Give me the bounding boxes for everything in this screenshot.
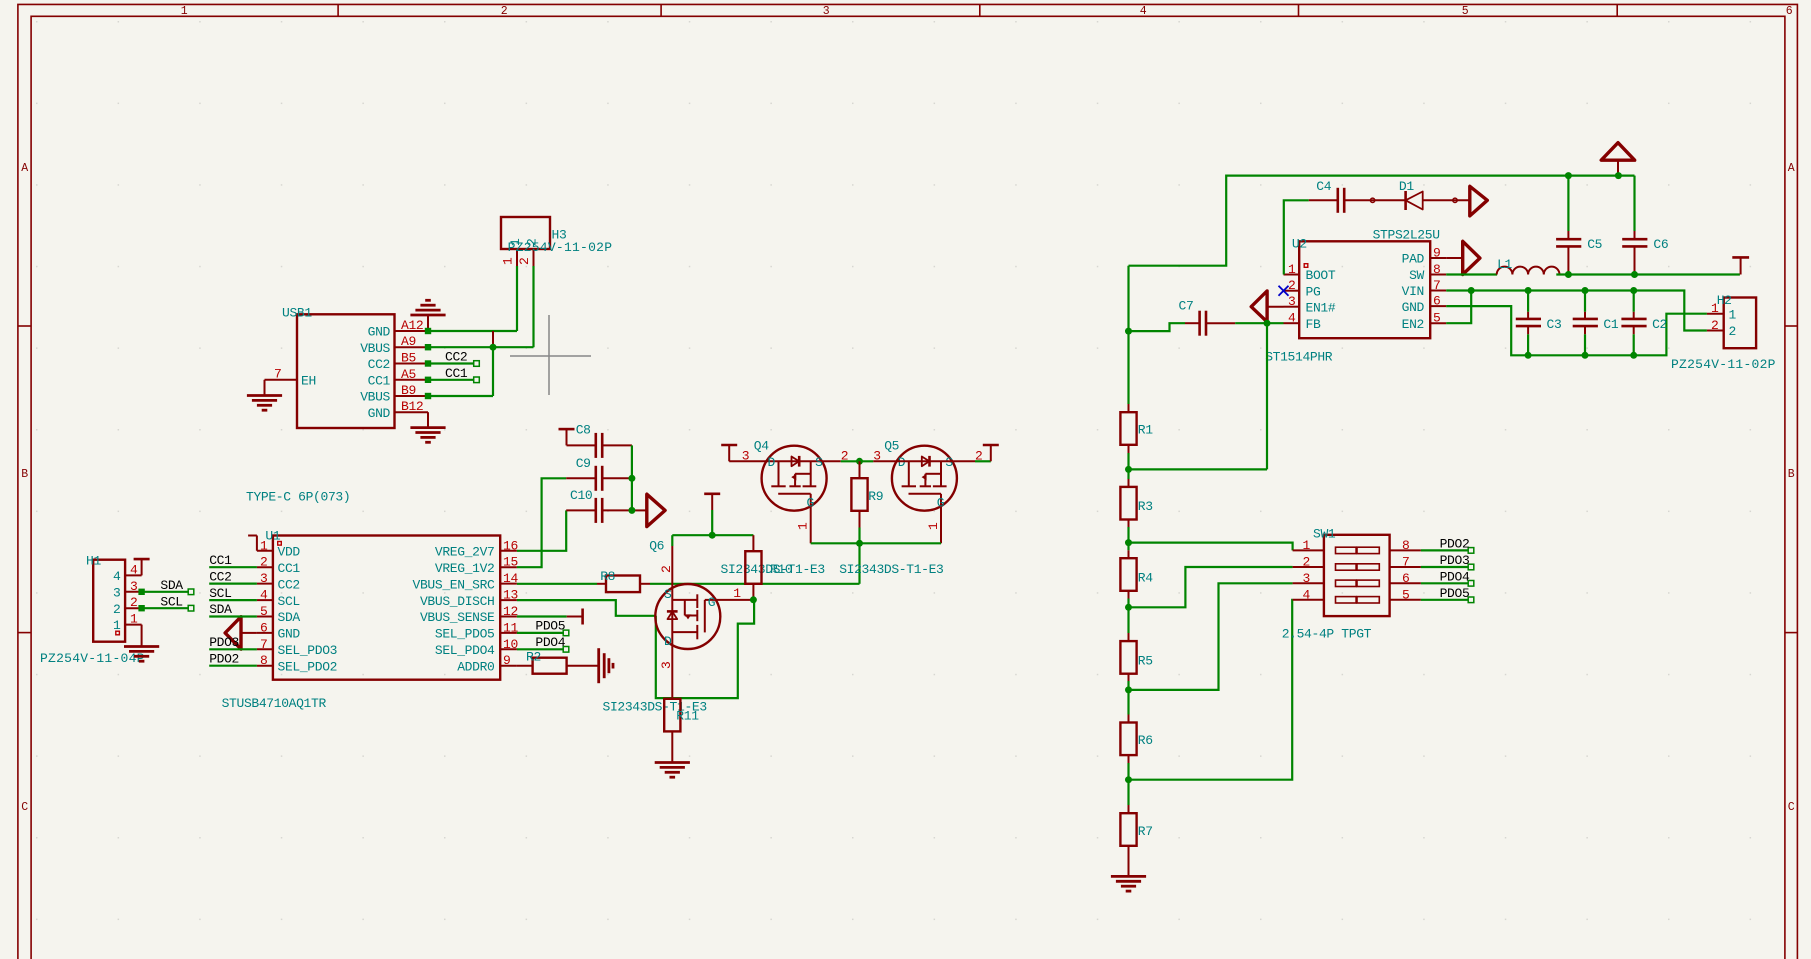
svg-text:CC1: CC1 — [445, 366, 468, 381]
capacitor C6 — [1622, 176, 1668, 275]
svg-text:SCL: SCL — [278, 594, 300, 609]
svg-text:4: 4 — [113, 569, 121, 584]
svg-text:VBUS_EN_SRC: VBUS_EN_SRC — [413, 577, 496, 592]
svg-text:GND: GND — [368, 325, 391, 340]
IC U1 STUSB4710AQ1TR — [222, 529, 519, 712]
connector H1 PZ254V-11-04P — [40, 554, 145, 667]
junction Q6 gate node — [750, 596, 757, 603]
connector USB1 TYPE-C 6P(073) — [246, 306, 428, 505]
label CC2 — [445, 350, 467, 365]
svg-text:S: S — [815, 455, 823, 470]
svg-text:S: S — [945, 455, 953, 470]
power bar at H1 pin4 — [134, 559, 150, 575]
wire top rail — [1129, 176, 1635, 266]
svg-text:C: C — [1788, 801, 1795, 814]
transistor Q4 SI2343DS — [742, 439, 849, 544]
svg-text:1: 1 — [733, 586, 741, 601]
svg-text:C1: C1 — [1603, 317, 1618, 332]
wire C8/C9/C10 common — [632, 445, 647, 510]
wire A9 VBUS net — [425, 344, 534, 350]
svg-text:11: 11 — [503, 620, 518, 635]
wire SEL_PDO5 — [517, 630, 569, 636]
wire H1 pin2 SCL — [138, 605, 193, 611]
svg-text:ADDR0: ADDR0 — [457, 659, 494, 674]
wire USB1 B12 to ground — [427, 412, 429, 427]
svg-text:3: 3 — [742, 449, 749, 464]
svg-text:6: 6 — [1433, 294, 1440, 309]
arrow right of D1 — [1470, 186, 1488, 216]
svg-text:1: 1 — [1288, 262, 1296, 277]
svg-text:SW1: SW1 — [1313, 527, 1336, 542]
resistor R7 — [1120, 780, 1152, 877]
svg-text:6: 6 — [1402, 571, 1409, 586]
svg-text:1: 1 — [1729, 307, 1737, 322]
svg-text:2: 2 — [113, 602, 120, 617]
wire Q5 source line — [873, 460, 991, 462]
wire GND net — [1446, 306, 1707, 355]
connector H3 PZ254V-11-02P — [501, 217, 613, 266]
wire tap to SW1 pin2 — [1129, 567, 1293, 607]
svg-text:2.54-4P TPGT: 2.54-4P TPGT — [1282, 627, 1372, 642]
wire H3 pin2 to A9 net — [532, 266, 534, 347]
svg-text:SEL_PDO3: SEL_PDO3 — [278, 643, 338, 658]
svg-text:7: 7 — [1433, 278, 1440, 293]
capacitor C9 — [566, 456, 632, 491]
wire SW1 PDO4 — [1421, 581, 1474, 587]
svg-text:2: 2 — [659, 566, 674, 573]
svg-text:4: 4 — [1140, 5, 1147, 18]
svg-text:CC1: CC1 — [278, 561, 301, 576]
svg-text:B5: B5 — [401, 351, 416, 366]
svg-text:PDO2: PDO2 — [209, 651, 239, 666]
wire L1 to output — [1556, 273, 1740, 275]
svg-text:A: A — [1788, 162, 1795, 175]
wire U1 VDD stub — [248, 536, 257, 551]
resistor R2 — [517, 650, 599, 674]
connector H2 PZ254V-11-02P — [1671, 293, 1776, 372]
svg-text:2: 2 — [517, 258, 532, 265]
svg-text:GND: GND — [278, 627, 301, 642]
svg-text:B9: B9 — [401, 383, 416, 398]
svg-text:C4: C4 — [1316, 179, 1331, 194]
arrow at U2 PAD — [1446, 241, 1480, 274]
label SDA — [160, 578, 183, 593]
label PDO5 — [1440, 586, 1470, 601]
svg-text:Q4: Q4 — [754, 439, 769, 454]
junction EN2/VIN — [1468, 287, 1475, 294]
svg-text:3: 3 — [659, 662, 674, 669]
svg-text:CC1: CC1 — [209, 553, 232, 568]
wire EH to ground — [264, 380, 266, 396]
svg-text:PZ254V-11-04P: PZ254V-11-04P — [40, 651, 145, 666]
svg-text:C: C — [21, 801, 28, 814]
wire H1 pin3 SDA — [138, 589, 193, 595]
power arrow top — [1601, 143, 1635, 176]
svg-text:SEL_PDO2: SEL_PDO2 — [278, 659, 338, 674]
power bar at output — [1732, 257, 1749, 274]
svg-text:C5: C5 — [1587, 237, 1602, 252]
svg-text:R6: R6 — [1138, 733, 1153, 748]
ground above USB1 pin A12 — [410, 300, 445, 331]
label PDO5 — [535, 619, 565, 634]
svg-text:R7: R7 — [1138, 824, 1153, 839]
svg-text:VREG_2V7: VREG_2V7 — [435, 545, 495, 560]
svg-text:B: B — [21, 468, 28, 481]
svg-text:PAD: PAD — [1402, 252, 1425, 267]
svg-text:BOOT: BOOT — [1306, 268, 1336, 283]
svg-text:7: 7 — [1402, 555, 1409, 570]
value SI2343DS-T1-E3 (Q6) — [603, 700, 707, 715]
junction C1 top — [1582, 287, 1589, 294]
svg-text:C3: C3 — [1547, 317, 1562, 332]
ground below R7 — [1111, 876, 1146, 891]
junction FB node — [1264, 320, 1271, 327]
junction C1 bottom — [1582, 352, 1589, 359]
ground below R11 — [655, 763, 690, 778]
junction C9 right — [628, 475, 635, 482]
wire U1 pin5 SDA — [209, 615, 257, 617]
junction R6/R7 — [1125, 776, 1132, 783]
wire H1 pin1 to ground — [141, 625, 143, 647]
svg-text:R4: R4 — [1138, 571, 1153, 586]
wire CC1 — [425, 377, 480, 383]
svg-text:GND: GND — [1402, 300, 1425, 315]
label PDO2 — [1440, 537, 1470, 552]
label SCL — [160, 594, 182, 609]
arrow right of C10 — [647, 494, 665, 526]
junction Q6 gate — [709, 532, 716, 539]
svg-text:R10: R10 — [770, 562, 792, 577]
svg-text:PDO2: PDO2 — [1440, 537, 1470, 552]
resistor R3 — [1120, 469, 1152, 542]
wire SW1 PDO2 — [1421, 548, 1474, 554]
wire R8 to Q4/Q5 gates — [650, 583, 860, 585]
svg-text:H1: H1 — [86, 554, 101, 569]
svg-text:2: 2 — [501, 5, 508, 18]
wire Q6 drain route — [656, 600, 754, 698]
svg-text:6: 6 — [260, 620, 267, 635]
svg-text:B: B — [1788, 468, 1795, 481]
svg-text:R1: R1 — [1138, 423, 1153, 438]
label CC2 — [209, 569, 231, 584]
junction C5 bottom — [1565, 271, 1572, 278]
svg-text:L1: L1 — [1497, 257, 1512, 272]
wire B9 VBUS — [425, 347, 493, 399]
capacitor C8 — [567, 423, 632, 458]
svg-text:H2: H2 — [1717, 293, 1732, 308]
wire BOOT riser — [1284, 200, 1309, 274]
svg-text:7: 7 — [260, 637, 267, 652]
svg-text:PDO3: PDO3 — [209, 635, 239, 650]
svg-text:3: 3 — [1288, 294, 1295, 309]
svg-text:14: 14 — [503, 571, 518, 586]
svg-text:4: 4 — [130, 562, 138, 577]
svg-text:2: 2 — [1288, 278, 1295, 293]
svg-text:C2: C2 — [1652, 317, 1667, 332]
label CC1 — [209, 553, 232, 568]
wire Q6 gate top — [672, 535, 753, 546]
svg-text:PDO4: PDO4 — [1440, 570, 1470, 585]
wire A12 GND net — [425, 328, 517, 334]
svg-text:1: 1 — [260, 538, 268, 553]
svg-text:2: 2 — [1303, 555, 1310, 570]
svg-text:8: 8 — [1433, 262, 1440, 277]
svg-text:2: 2 — [260, 555, 267, 570]
svg-text:SEL_PDO4: SEL_PDO4 — [435, 643, 495, 658]
svg-text:8: 8 — [260, 653, 267, 668]
resistor R11 — [664, 699, 699, 763]
svg-text:5: 5 — [1402, 587, 1409, 602]
svg-text:A12: A12 — [401, 318, 423, 333]
svg-text:9: 9 — [503, 653, 510, 668]
transistor Q6 SI2343DS — [649, 539, 753, 699]
svg-text:C7: C7 — [1179, 299, 1194, 314]
wire U1 pin4 SCL — [209, 599, 257, 601]
svg-text:C9: C9 — [576, 456, 591, 471]
svg-text:VREG_1V2: VREG_1V2 — [435, 561, 495, 576]
capacitor C4 — [1309, 179, 1406, 213]
svg-text:FB: FB — [1306, 317, 1321, 332]
svg-text:16: 16 — [503, 538, 518, 553]
wire gate bus Q4-R9-Q5 — [811, 542, 941, 544]
svg-text:U2: U2 — [1292, 237, 1307, 252]
wire CC2 — [425, 360, 480, 366]
svg-text:VBUS: VBUS — [360, 341, 390, 356]
wire VBUS_SENSE with bar — [517, 609, 583, 625]
svg-text:SEL_PDO5: SEL_PDO5 — [435, 627, 495, 642]
junction C2 bottom — [1630, 352, 1637, 359]
svg-text:3: 3 — [113, 585, 120, 600]
wire SEL_PDO4 — [517, 647, 569, 653]
junction R1/R3 — [1125, 466, 1132, 473]
label PDO4 — [535, 635, 565, 650]
svg-text:G: G — [708, 595, 715, 610]
value SI2343DS-T1-E3 (Q4) — [721, 562, 825, 577]
junction C10 right — [628, 507, 635, 514]
value SI2343DS-T1-E3 (Q5) — [839, 562, 943, 577]
wire tap to SW1 pin4 — [1129, 600, 1293, 780]
svg-text:5: 5 — [260, 604, 267, 619]
junction A9/B9 — [490, 344, 497, 351]
svg-text:VIN: VIN — [1402, 284, 1424, 299]
svg-text:PG: PG — [1306, 284, 1321, 299]
svg-text:1: 1 — [508, 238, 523, 246]
svg-text:C10: C10 — [570, 488, 592, 503]
svg-text:3: 3 — [130, 579, 137, 594]
svg-text:ST1514PHR: ST1514PHR — [1265, 350, 1333, 365]
wire tap to SW1 pin1 — [1129, 543, 1293, 551]
svg-text:D1: D1 — [1399, 179, 1414, 194]
capacitor C2 — [1621, 291, 1667, 356]
resistor R10 — [745, 535, 761, 600]
wire feedback chain top — [1127, 266, 1129, 413]
svg-text:1: 1 — [796, 522, 811, 530]
arrow at U2 EN1# — [1251, 291, 1283, 322]
wire VIN net — [1446, 291, 1707, 331]
svg-text:CC2: CC2 — [368, 357, 390, 372]
capacitor C5 — [1556, 176, 1602, 275]
svg-text:A9: A9 — [401, 334, 416, 349]
ground at USB1 B12 — [410, 428, 445, 443]
label SCL — [209, 586, 231, 601]
junction C5 top — [1565, 172, 1572, 179]
svg-text:3: 3 — [260, 571, 267, 586]
svg-text:1: 1 — [181, 5, 188, 18]
svg-text:13: 13 — [503, 588, 518, 603]
switch SW1 2.54-4P TPGT — [1282, 527, 1421, 642]
wire Q4.S to Q5.D — [841, 460, 874, 462]
wire U1 pin2 CC1 — [209, 566, 257, 568]
svg-text:4: 4 — [1303, 587, 1311, 602]
svg-text:2: 2 — [1711, 318, 1718, 333]
svg-text:15: 15 — [503, 555, 518, 570]
svg-text:GND: GND — [368, 406, 391, 421]
power bar at Q4 pin3 — [721, 445, 737, 461]
junction C7 left — [1125, 328, 1132, 335]
svg-text:3: 3 — [1303, 571, 1310, 586]
red link A12 to A9 — [492, 331, 494, 347]
junction R4/R5 — [1125, 604, 1132, 611]
svg-text:R9: R9 — [868, 489, 883, 504]
svg-text:VBUS: VBUS — [360, 390, 390, 405]
svg-text:R3: R3 — [1138, 499, 1153, 514]
wire SW node — [1446, 273, 1497, 275]
svg-text:1: 1 — [926, 522, 941, 530]
power bar above Q6 — [704, 494, 720, 535]
svg-text:EH: EH — [301, 373, 316, 388]
diode D1 STPS2L25U — [1370, 179, 1469, 210]
wire gate bus down to R8 net — [858, 543, 860, 584]
svg-text:CC2: CC2 — [278, 577, 300, 592]
svg-text:R11: R11 — [676, 709, 699, 724]
svg-text:C8: C8 — [576, 423, 591, 438]
svg-text:STUSB4710AQ1TR: STUSB4710AQ1TR — [222, 696, 327, 711]
svg-text:R2: R2 — [526, 650, 541, 665]
cursor crosshair — [510, 315, 591, 395]
svg-text:PDO4: PDO4 — [535, 635, 565, 650]
svg-text:10: 10 — [503, 637, 518, 652]
svg-text:4: 4 — [260, 588, 268, 603]
resistor R4 — [1120, 543, 1153, 608]
wire H3 pin1 to A12 net — [516, 266, 518, 331]
wire VREG_1V2 to C9 — [517, 478, 566, 567]
svg-text:SI2343DS-T1-E3: SI2343DS-T1-E3 — [839, 562, 943, 577]
svg-text:6: 6 — [1786, 5, 1793, 18]
capacitor C1 — [1573, 291, 1619, 356]
svg-text:2: 2 — [130, 595, 137, 610]
IC U2 ST1514PHR — [1265, 228, 1446, 365]
wire SW1 PDO3 — [1421, 564, 1474, 570]
svg-text:4: 4 — [1288, 311, 1296, 326]
label R10 — [770, 562, 792, 577]
svg-text:D: D — [898, 455, 906, 470]
power bar at Q5 pin2 — [983, 445, 999, 461]
svg-text:Q6: Q6 — [649, 539, 664, 554]
svg-text:S: S — [664, 587, 672, 602]
svg-text:9: 9 — [1433, 246, 1440, 261]
label CC1 — [445, 366, 468, 381]
svg-text:PDO5: PDO5 — [1440, 586, 1470, 601]
no-connect X at U2 PG — [1279, 286, 1289, 296]
junction power stem — [1615, 172, 1622, 179]
svg-text:D: D — [768, 455, 776, 470]
label PDO3 — [1440, 553, 1470, 568]
svg-text:5: 5 — [1462, 5, 1469, 18]
svg-text:STPS2L25U: STPS2L25U — [1373, 228, 1440, 243]
wire U1 pin8 PDO2 — [209, 665, 257, 667]
capacitor C3 — [1516, 291, 1562, 356]
svg-text:5: 5 — [1433, 311, 1440, 326]
svg-text:PZ254V-11-02P: PZ254V-11-02P — [1671, 357, 1776, 372]
svg-text:SW: SW — [1409, 268, 1424, 283]
wire VBUS_DISCH — [517, 600, 656, 616]
svg-text:D: D — [664, 634, 672, 649]
resistor R8 — [517, 569, 650, 592]
svg-text:1: 1 — [501, 257, 516, 265]
svg-text:2: 2 — [525, 239, 540, 246]
junction R9 bottom — [856, 540, 863, 547]
ground at H1 pin1 — [124, 647, 159, 662]
resistor R5 — [1120, 607, 1152, 690]
svg-text:C6: C6 — [1653, 237, 1668, 252]
svg-text:1: 1 — [130, 612, 138, 627]
transistor Q5 SI2343DS — [873, 439, 982, 544]
junction R5/R6 — [1125, 686, 1132, 693]
svg-text:USB1: USB1 — [282, 306, 312, 321]
power bar at C8 — [559, 429, 575, 445]
svg-text:CC2: CC2 — [445, 350, 467, 365]
svg-text:PZ254V-11-02P: PZ254V-11-02P — [508, 240, 613, 255]
wire SW1 PDO5 — [1421, 597, 1474, 603]
svg-text:1: 1 — [1711, 301, 1719, 316]
svg-text:3: 3 — [823, 5, 830, 18]
svg-text:12: 12 — [503, 604, 518, 619]
wire tap to SW1 pin3 — [1129, 583, 1293, 690]
capacitor C7 — [1129, 299, 1284, 336]
svg-text:SCL: SCL — [160, 594, 182, 609]
resistor R9 — [851, 461, 883, 543]
svg-text:TYPE-C 6P(073): TYPE-C 6P(073) — [246, 490, 350, 505]
svg-text:PDO3: PDO3 — [1440, 553, 1470, 568]
capacitor C10 — [566, 488, 632, 523]
resistor R1 — [1120, 412, 1153, 469]
svg-text:SDA: SDA — [160, 578, 183, 593]
svg-text:A5: A5 — [401, 367, 416, 382]
svg-text:SDA: SDA — [278, 610, 301, 625]
svg-text:SCL: SCL — [209, 586, 231, 601]
svg-text:G: G — [807, 496, 814, 511]
wire Q4 drain line — [729, 460, 841, 462]
junction C3 bottom — [1525, 352, 1532, 359]
svg-text:CC2: CC2 — [209, 569, 231, 584]
label PDO3 — [209, 635, 239, 650]
ground right of R2 — [599, 648, 613, 683]
wire U1 pin7 PDO3 — [209, 648, 257, 650]
svg-text:2: 2 — [1729, 324, 1736, 339]
svg-text:Q5: Q5 — [884, 439, 899, 454]
wire U1 pin3 CC2 — [209, 582, 257, 584]
junction C2 top — [1630, 287, 1637, 294]
svg-text:EN2: EN2 — [1402, 317, 1424, 332]
label SDA — [209, 602, 232, 617]
label PDO2 — [209, 651, 239, 666]
svg-text:1: 1 — [1303, 538, 1311, 553]
junction R9 top — [856, 458, 863, 465]
svg-text:G: G — [937, 496, 944, 511]
svg-text:CC1: CC1 — [368, 373, 391, 388]
wire FB riser — [1266, 323, 1268, 469]
wire EN2 to VIN — [1446, 291, 1471, 324]
